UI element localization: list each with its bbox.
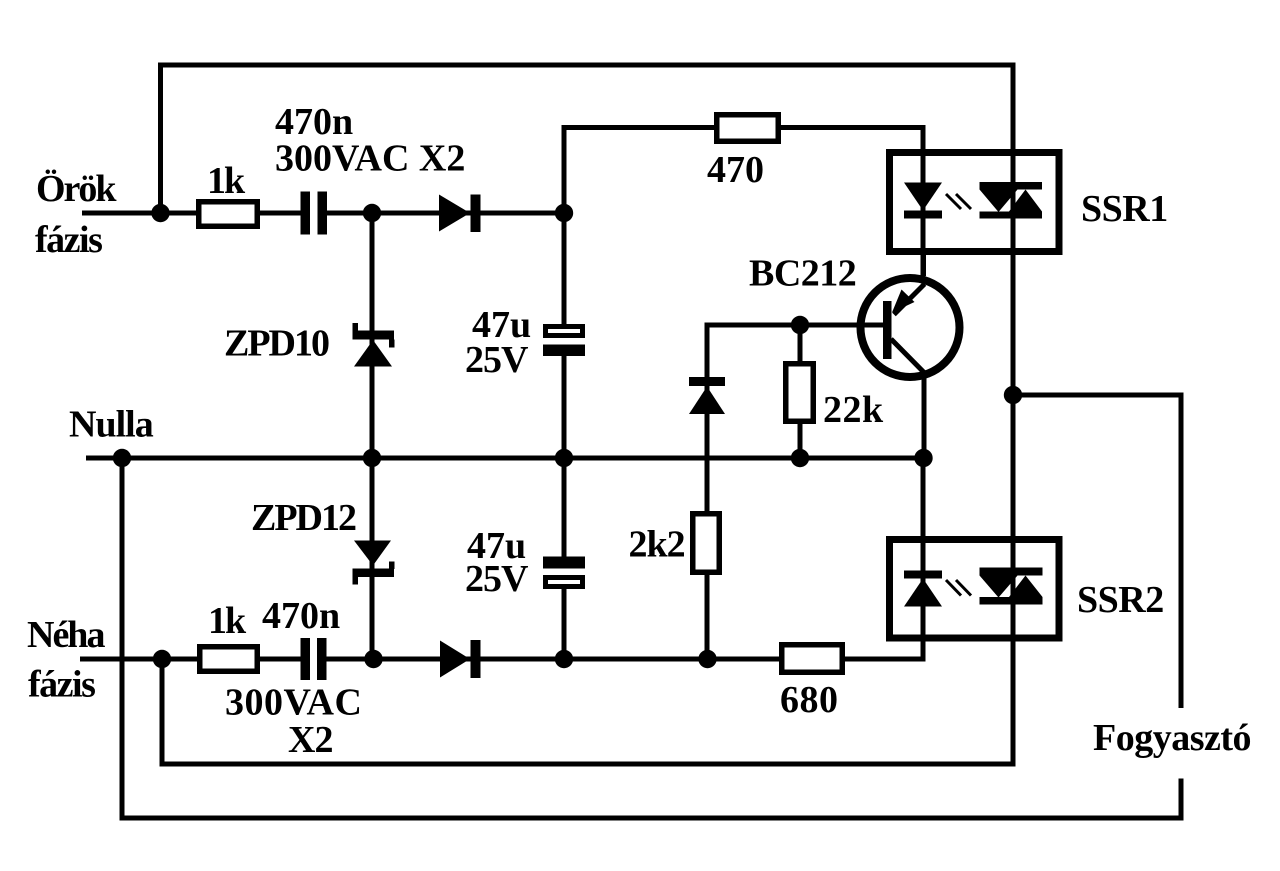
wire C2 bottom to Neha line bbox=[562, 586, 567, 661]
SSR2 LED cathode bar bbox=[904, 571, 942, 579]
zener ZPD12 right hook bbox=[389, 562, 395, 570]
diode D1 cathode bar bbox=[471, 195, 481, 233]
node base/22k bbox=[791, 316, 809, 334]
zener ZPD10 right hook bbox=[389, 340, 395, 348]
node 2k2/Neha bbox=[698, 650, 716, 668]
wire SSR1 LED column bbox=[921, 125, 926, 277]
zener ZPD10 left hook bbox=[353, 323, 359, 331]
diode D1 triangle bbox=[439, 195, 470, 232]
capacitor C2 47u hollow plate bbox=[546, 578, 583, 587]
transistor Q1 emitter arrow bbox=[892, 290, 915, 313]
node Neha input bbox=[153, 650, 171, 668]
diode D3 cathode bar bbox=[689, 377, 725, 386]
SSR2 triac left triangle bbox=[980, 576, 1018, 598]
wire ZPD10 branch bbox=[370, 211, 375, 460]
SSR2 triac bottom bar bbox=[980, 597, 1043, 605]
wire riser from D1 junction to 470 resistor line into SSR1 LED bbox=[564, 128, 923, 216]
svg-text:2k2: 2k2 bbox=[629, 524, 685, 566]
svg-text:SSR2: SSR2 bbox=[1077, 579, 1164, 621]
node collector/Nulla bbox=[914, 449, 932, 467]
capacitor C1 47u hollow plate bbox=[546, 327, 583, 336]
node 22k/Nulla bbox=[791, 449, 809, 467]
svg-text:fázis: fázis bbox=[35, 219, 102, 261]
SSR2 LED triangle bbox=[904, 579, 942, 607]
zener ZPD12 left hook bbox=[353, 577, 359, 585]
resistor 22k bbox=[786, 364, 814, 422]
SSR1 opto slashes bbox=[946, 194, 971, 209]
resistor 470 bbox=[717, 115, 779, 142]
svg-text:300VAC: 300VAC bbox=[225, 682, 362, 724]
node D2 cathode junction bbox=[555, 650, 573, 668]
zener ZPD12 triangle bbox=[354, 541, 391, 566]
resistor 2k2 bbox=[693, 514, 720, 573]
wire load node to right terminal bbox=[1011, 395, 1182, 708]
zener ZPD10 triangle bbox=[354, 340, 392, 367]
capacitor 470n top plate B bbox=[318, 192, 328, 235]
capacitor 470n bottom plate B bbox=[317, 638, 327, 680]
wire transistor collector stub bbox=[922, 377, 927, 460]
wire C2 branch from Nulla bbox=[562, 456, 567, 558]
wire Nulla line bbox=[86, 456, 926, 461]
capacitor 470n top plate A bbox=[301, 192, 311, 235]
svg-text:ZPD10: ZPD10 bbox=[224, 323, 329, 365]
svg-text:25V: 25V bbox=[465, 339, 529, 381]
SSR2 opto slashes bbox=[946, 580, 971, 596]
svg-text:680: 680 bbox=[780, 679, 839, 721]
diode D2 cathode bar bbox=[471, 640, 481, 678]
svg-text:SSR1: SSR1 bbox=[1081, 188, 1168, 230]
wire ZPD12 branch from Nulla to Neha line bbox=[370, 456, 375, 661]
wire top bus from Orok node up and across to triac column bbox=[161, 65, 1014, 216]
wire base node to D3 and down through 2k2 bbox=[707, 325, 885, 659]
SSR2 triac top bar bbox=[980, 568, 1043, 576]
SSR1 LED cathode bar bbox=[904, 211, 942, 219]
transistor Q1 emitter slant bbox=[894, 284, 925, 315]
svg-text:X2: X2 bbox=[288, 719, 332, 761]
node ZPD10/Nulla bbox=[363, 449, 381, 467]
node triac/load bbox=[1004, 386, 1022, 404]
svg-text:470n: 470n bbox=[262, 595, 340, 637]
SSR1 triac left triangle bbox=[980, 190, 1018, 213]
opto SSR2 box bbox=[890, 540, 1060, 639]
svg-text:1k: 1k bbox=[207, 160, 246, 202]
wire 470n cap to diode D1 junction bbox=[326, 211, 564, 216]
wire SSR2 LED column up to Nulla bbox=[921, 456, 926, 662]
svg-text:1k: 1k bbox=[208, 600, 247, 642]
svg-text:BC212: BC212 bbox=[749, 253, 856, 295]
node cap/ZPD10 junction bbox=[363, 204, 381, 222]
node Orok input bbox=[151, 204, 169, 222]
SSR1 triac top bar bbox=[980, 182, 1043, 190]
capacitor 470n bottom plate A bbox=[301, 638, 311, 680]
node Nulla input bbox=[113, 449, 131, 467]
op-to SSR1 box bbox=[890, 153, 1060, 252]
diode D2 triangle bbox=[440, 641, 470, 678]
svg-text:Örök: Örök bbox=[36, 168, 117, 210]
svg-text:ZPD12: ZPD12 bbox=[251, 497, 356, 539]
wire junction to C1 top plate bbox=[562, 211, 567, 326]
zener ZPD12 cathode bar bbox=[353, 569, 395, 578]
node ZPD12/Neha bbox=[364, 650, 382, 668]
svg-text:Nulla: Nulla bbox=[69, 404, 154, 446]
svg-text:Néha: Néha bbox=[27, 614, 105, 656]
capacitor C2 47u solid plate bbox=[543, 557, 585, 569]
diode D3 triangle bbox=[689, 387, 725, 415]
svg-text:22k: 22k bbox=[823, 389, 884, 431]
svg-text:Fogyasztó: Fogyasztó bbox=[1093, 717, 1251, 759]
SSR2 triac right triangle bbox=[1009, 576, 1043, 598]
capacitor C1 47u solid plate bbox=[543, 345, 585, 357]
wire Orok phase input stub to 470n cap bbox=[82, 211, 302, 216]
transistor Q1 base bar bbox=[883, 301, 892, 359]
node D1 cathode junction bbox=[555, 204, 573, 222]
resistor 1k (top) bbox=[199, 202, 258, 227]
svg-text:470: 470 bbox=[707, 149, 764, 191]
wire Neha line from cap to SSR2 LED corner bbox=[326, 657, 923, 662]
wire 22k branch bbox=[798, 323, 803, 460]
transistor Q1 circle bbox=[861, 278, 960, 377]
transistor Q1 collector slant bbox=[891, 339, 928, 377]
resistor 1k (bottom) bbox=[200, 647, 258, 672]
SSR1 triac right triangle bbox=[1009, 190, 1042, 212]
svg-text:fázis: fázis bbox=[28, 664, 95, 706]
svg-text:300VAC X2: 300VAC X2 bbox=[275, 138, 465, 180]
zener ZPD10 cathode bar bbox=[353, 331, 395, 340]
resistor 680 bbox=[782, 645, 843, 673]
wire left bus down and bottom to load terminal bbox=[122, 456, 1181, 818]
svg-text:25V: 25V bbox=[465, 558, 529, 600]
wire triac column down through SSR1 and SSR2 to bottom return bbox=[162, 63, 1013, 765]
SSR1 triac bottom bar bbox=[980, 212, 1043, 219]
wire Neha phase input to 470n cap bbox=[80, 657, 302, 662]
wire C1 bottom plate to Nulla bbox=[562, 354, 567, 460]
node C1/Nulla bbox=[555, 449, 573, 467]
SSR1 LED triangle bbox=[904, 183, 942, 211]
wire transistor emitter stub bbox=[921, 252, 926, 276]
